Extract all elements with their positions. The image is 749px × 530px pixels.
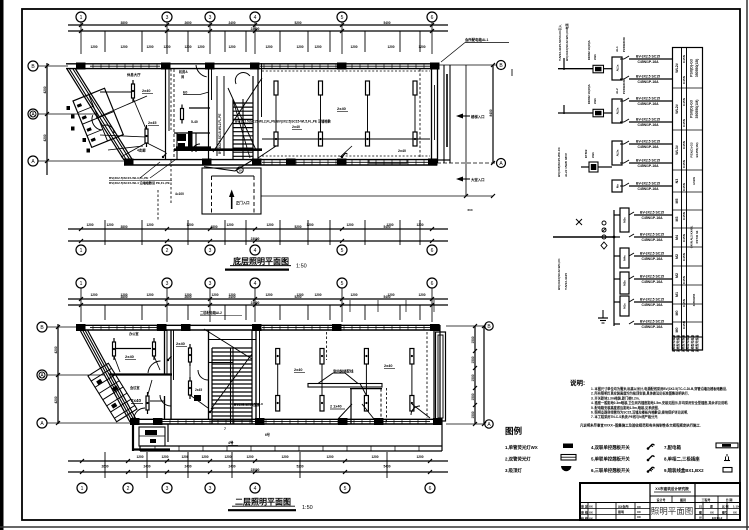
plan2 rotated stair block <box>88 363 137 422</box>
svg-text:2x40: 2x40 <box>292 125 300 129</box>
svg-text:2x40: 2x40 <box>176 341 186 346</box>
svg-text:XX: XX <box>589 516 593 520</box>
plan2 right room fixture stem 1 <box>277 364 279 396</box>
svg-text:日 期: 日 期 <box>726 497 733 502</box>
plan1 entrance box <box>202 168 261 214</box>
legend symbol 5 <box>647 459 650 462</box>
plan2 stair diagonal <box>204 329 252 359</box>
plan2 entry fixture <box>145 430 157 435</box>
plan2 axis line 1 <box>80 288 82 322</box>
riser breaker M0 <box>629 321 634 324</box>
plan2 bottom wall <box>130 418 442 420</box>
riser panel 4 <box>614 214 620 216</box>
plan2 entry walls <box>132 424 134 451</box>
svg-text:4: 4 <box>254 486 257 492</box>
plan1 fixture F1 <box>132 80 134 102</box>
riser wire m3 <box>581 166 589 168</box>
riser panel 1 <box>612 57 622 80</box>
svg-text:30550255: 30550255 <box>692 293 696 306</box>
riser table bottom box <box>673 337 703 350</box>
plan2 right wires <box>318 373 333 384</box>
riser breaker WL5 <box>620 143 624 145</box>
plan2 axis circle 4 top <box>250 278 260 288</box>
plan2 door arc 3 <box>198 370 208 380</box>
plan2 wall x208 <box>208 330 210 419</box>
svg-text:DD862 10(40)A: DD862 10(40)A <box>587 84 591 104</box>
plan2 hwall left <box>109 373 172 375</box>
svg-text:C45N/1P-16A: C45N/1P-16A <box>641 303 663 307</box>
plan2 fixture H1 <box>113 338 115 360</box>
plan1 top wall window ticks <box>92 64 94 69</box>
svg-text:C45N/1P-16A: C45N/1P-16A <box>637 123 659 127</box>
plan1 top wall column <box>430 63 440 70</box>
plan1 top dim line 2 <box>68 30 448 32</box>
plan2 top dim line 1 <box>68 298 448 300</box>
svg-text:M5: M5 <box>675 199 679 204</box>
svg-text:1: 1 <box>80 248 83 254</box>
svg-text:底层照明平面图: 底层照明平面图 <box>232 256 289 266</box>
legend symbol 2 <box>561 455 576 461</box>
svg-text:图别: 图别 <box>680 497 686 502</box>
svg-text:AL2J 15kW 380V: AL2J 15kW 380V <box>564 153 568 177</box>
svg-text:EQ10-2: EQ10-2 <box>712 516 723 520</box>
svg-text:BV-3X2.5 SC15: BV-3X2.5 SC15 <box>636 55 660 59</box>
plan1 entrance inner sides <box>211 176 213 214</box>
plan1 wall x170 <box>165 69 167 160</box>
svg-text:C45N: C45N <box>682 118 686 127</box>
plan1 wall x208 <box>208 69 210 160</box>
plan1 axis circle A left <box>28 156 38 166</box>
svg-text:1200: 1200 <box>106 223 113 227</box>
titleblock right rows <box>695 508 740 510</box>
svg-text:审 核: 审 核 <box>581 509 588 514</box>
legend symbol 9 <box>723 468 732 473</box>
svg-text:1500: 1500 <box>471 336 475 343</box>
plan1 bottom wall <box>124 159 437 161</box>
svg-text:5: 5 <box>341 15 344 21</box>
riser panel 2 <box>612 99 622 123</box>
plan1 bottom extension ticks <box>104 220 106 245</box>
plan1 note leaders <box>140 162 160 178</box>
svg-text:7: 7 <box>224 427 226 431</box>
svg-text:5,单联单控翘板开关: 5,单联单控翘板开关 <box>591 456 630 463</box>
svg-text:照明: 照明 <box>618 509 624 514</box>
svg-text:设计号: 设计号 <box>656 497 665 502</box>
legend symbol 6 <box>647 470 650 473</box>
plan2 right room fixture stem 4 <box>411 364 413 396</box>
svg-text:审 定: 审 定 <box>581 503 588 508</box>
svg-text:3: 3 <box>166 281 169 287</box>
svg-text:XX市建筑设计研究院: XX市建筑设计研究院 <box>655 486 689 491</box>
plan1 top wall column <box>250 63 260 70</box>
svg-text:6号: 6号 <box>265 432 271 437</box>
svg-text:C45N: C45N <box>682 275 686 284</box>
plan1 axis circle 5 bottom <box>337 245 347 255</box>
svg-text:工程号: 工程号 <box>701 497 710 502</box>
riser branch 186 <box>620 185 624 187</box>
titleblock h mid <box>580 502 650 504</box>
svg-text:4200: 4200 <box>43 86 47 93</box>
svg-text:XX: XX <box>589 510 593 514</box>
riser tap tick 2 <box>563 105 565 114</box>
plan1 axis circle A right <box>497 159 506 168</box>
plan2 AL2 panel box <box>194 395 201 401</box>
svg-text:PSX(D)-G3: PSX(D)-G3 <box>690 100 694 118</box>
legend symbol 1 <box>563 444 573 449</box>
plan2 right room fixture top 1 <box>276 349 280 365</box>
plan2 right dots <box>277 355 279 357</box>
svg-text:BV(3X2.5)SC15-WL8: BV(3X2.5)SC15-WL8 <box>234 402 263 406</box>
plan2 bottom wall column <box>153 418 163 425</box>
plan2 axis circle 1 top <box>76 278 86 288</box>
svg-text:2x45: 2x45 <box>195 388 202 392</box>
svg-text:2x40: 2x40 <box>294 368 302 372</box>
svg-text:BV-3X2.5 SC15: BV-3X2.5 SC15 <box>640 298 664 302</box>
plan2 stair treads <box>212 347 252 349</box>
svg-text:6: 6 <box>429 486 432 492</box>
plan2 right dashed <box>426 332 428 418</box>
plan2 wires left <box>154 356 160 370</box>
svg-text:3: 3 <box>209 248 212 254</box>
plan2 right room fixture stem 3 <box>365 364 367 396</box>
plan1 left room dots <box>132 90 134 92</box>
plan1 slant tick blobs <box>67 106 71 110</box>
svg-text:AL2x: AL2x <box>616 107 620 114</box>
svg-text:23000: 23000 <box>251 27 260 31</box>
plan2 fixture V1 <box>147 392 149 414</box>
svg-text:XX: XX <box>637 515 641 519</box>
riser ground symbol <box>602 310 604 318</box>
plan1 right axis line B <box>439 64 496 66</box>
svg-text:3: 3 <box>209 281 212 287</box>
svg-text:正门入口: 正门入口 <box>236 200 250 205</box>
svg-text:1200: 1200 <box>224 455 231 459</box>
plan2 right inner vdim <box>474 326 476 424</box>
svg-text:PXT30 3X: PXT30 3X <box>695 230 699 243</box>
plan1 top wall column <box>337 63 347 70</box>
riser feeder switch <box>602 221 606 225</box>
plan2 balcony ticks <box>154 446 156 451</box>
svg-text:1200: 1200 <box>418 293 425 297</box>
plan2 right axis line A <box>446 423 485 425</box>
svg-text:6. 照明支路穿线管均为SC15,沿墙及楼板内暗敷设,接地保: 6. 照明支路穿线管均为SC15,沿墙及楼板内暗敷设,接地保护详见说明, <box>591 410 688 415</box>
plan1 big room fixture stem 1 <box>275 95 277 132</box>
plan2 axis line 3 <box>209 288 211 322</box>
titleblock vline major 2 <box>694 483 696 520</box>
svg-text:B1455(1M): B1455(1M) <box>695 142 699 157</box>
svg-text:C45N AL2 KX45L: C45N AL2 KX45L <box>690 225 694 248</box>
plan2 bottom wall column <box>255 418 265 425</box>
svg-text:BV(3X2.5)SC15-WL3,FL,PE: BV(3X2.5)SC15-WL3,FL,PE <box>109 176 148 180</box>
svg-text:XX: XX <box>733 511 737 515</box>
riser wire m2-p2 <box>604 112 613 114</box>
plan1 axis line 3 <box>209 22 211 54</box>
plan1 axis line 1 <box>80 22 82 54</box>
riser breaker WL4 <box>620 121 624 123</box>
svg-text:M1x: M1x <box>623 303 627 309</box>
riser tap 2 <box>558 112 593 114</box>
riser breaker M2 <box>629 276 634 279</box>
svg-text:XX: XX <box>589 504 593 508</box>
plan1 left switch <box>162 156 164 158</box>
plan2 wall x164 <box>164 330 166 375</box>
svg-text:3800: 3800 <box>120 21 127 25</box>
svg-text:C45N: C45N <box>682 159 686 168</box>
plan2 top wall column <box>76 324 86 331</box>
svg-text:4走廊: 4走廊 <box>137 148 146 153</box>
svg-text:1200: 1200 <box>161 455 168 459</box>
svg-text:3: 3 <box>209 486 212 492</box>
plan1 left axis line 1/A <box>38 113 96 115</box>
plan1 bottom wall column <box>124 159 134 166</box>
plan2 right room fixture bottom 4 <box>410 396 414 412</box>
svg-text:1:50: 1:50 <box>302 505 313 511</box>
plan2 left slant wall <box>80 330 130 422</box>
svg-text:2x40: 2x40 <box>142 89 150 93</box>
plan1 big room fixture bottom 4 <box>413 132 417 146</box>
svg-text:BV-3X2.5 SC15: BV-3X2.5 SC15 <box>640 211 664 215</box>
plan2 fixture V3 <box>189 377 191 399</box>
plan2 door arc 1 <box>148 361 161 373</box>
svg-text:3. 开关距地1.3m暗装,距门框0.2m,: 3. 开关距地1.3m暗装,距门框0.2m, <box>591 395 640 400</box>
plan1 wire diag <box>133 98 146 129</box>
plan1 bottom wall column <box>202 159 212 166</box>
plan2 switches <box>167 359 169 361</box>
riser breaker M1 <box>629 299 634 302</box>
plan1 top wall column <box>205 63 215 70</box>
plan1 wire F1 <box>100 91 131 93</box>
legend symbol 4 <box>647 447 650 450</box>
svg-text:6: 6 <box>431 281 434 287</box>
svg-text:C45N: C45N <box>682 211 686 220</box>
plan2 axis line 3 <box>166 288 168 322</box>
plan1 stair left wall <box>216 76 218 156</box>
svg-text:BV-3X2.5 SC15: BV-3X2.5 SC15 <box>636 159 660 163</box>
plan1 big room fixture stem 3 <box>367 95 369 132</box>
svg-text:AL1x: AL1x <box>616 64 620 71</box>
svg-text:2,双管荧光灯: 2,双管荧光灯 <box>505 456 531 463</box>
plan1 long diagonal <box>213 78 262 152</box>
svg-text:C45N/1P-16A: C45N/1P-16A <box>637 60 659 64</box>
svg-text:1,单管荧光灯WX: 1,单管荧光灯WX <box>505 444 538 451</box>
plan1 bottom dim line 1 <box>68 228 448 230</box>
plan1 big room dash top <box>262 70 430 72</box>
svg-text:1: 1 <box>81 486 84 492</box>
svg-text:3,吸顶灯: 3,吸顶灯 <box>505 467 522 474</box>
plan2 left axis line 1/A <box>47 374 105 376</box>
plan1 axis circle 2 bottom <box>162 245 172 255</box>
svg-text:2: 2 <box>127 486 130 492</box>
plan2 right room fixture top 3 <box>364 349 368 365</box>
plan2 axis circle 3 top <box>205 278 215 288</box>
svg-text:1200: 1200 <box>416 455 423 459</box>
plan2 balcony strip <box>140 445 442 447</box>
plan2 wire V1 <box>150 400 164 402</box>
plan1 stair treads <box>233 102 253 104</box>
svg-text:1200: 1200 <box>228 45 235 49</box>
titleblock left cols <box>587 503 589 521</box>
svg-text:4200: 4200 <box>54 396 58 403</box>
plan1 axis circle 3 top <box>162 12 172 22</box>
plan1 corridor wall <box>174 148 262 151</box>
plan2 axis line 6 <box>431 288 433 322</box>
plan2 axis circle 6 top <box>427 278 437 288</box>
svg-text:M2x: M2x <box>623 280 627 286</box>
plan2 axis circle 4 bottom <box>250 483 260 493</box>
svg-text:AL1: AL1 <box>615 46 619 52</box>
riser breaker M3 <box>629 212 634 215</box>
svg-text:7,配电箱: 7,配电箱 <box>664 444 681 451</box>
svg-text:1200: 1200 <box>281 455 288 459</box>
riser table row lines <box>673 87 703 89</box>
plan1 axis circle B left <box>28 61 38 71</box>
svg-text:350550(1M): 350550(1M) <box>695 100 699 119</box>
svg-text:图号: 图号 <box>722 511 728 515</box>
plan2 axis circle B left <box>37 322 47 332</box>
legend symbol 8 <box>724 460 730 462</box>
svg-text:1500: 1500 <box>471 374 475 381</box>
svg-text:2 1x40: 2 1x40 <box>330 405 342 409</box>
plan2 right vert dim <box>483 326 485 424</box>
plan1 top dim line 1 <box>68 24 448 26</box>
svg-text:M3x: M3x <box>623 217 627 223</box>
plan1 stair top arc <box>235 73 250 84</box>
plan1 left vert dim line <box>46 63 48 175</box>
svg-text:AL3x: AL3x <box>616 149 620 156</box>
svg-text:M2: M2 <box>675 273 679 278</box>
plan1 big room fixture bottom 1 <box>274 132 278 146</box>
plan1 top wall column <box>161 63 171 70</box>
riser wire m1-p1 <box>604 68 613 70</box>
plan1 entrance dashes <box>170 160 172 205</box>
svg-text:1200: 1200 <box>184 293 191 297</box>
plan1 big room dash bottom <box>262 155 430 157</box>
svg-text:C45N/1P-16A: C45N/1P-16A <box>641 325 663 329</box>
plan1 WC leader wires <box>96 96 147 118</box>
svg-text:4,双联单控翘板开关: 4,双联单控翘板开关 <box>591 444 630 451</box>
svg-text:10: 10 <box>238 169 242 173</box>
plan2 beam bar <box>308 384 382 388</box>
svg-text:WL2#: WL2# <box>675 104 679 114</box>
plan2 axis circle 3 bottom <box>205 483 215 493</box>
svg-text:2x40: 2x40 <box>131 398 142 403</box>
plan2 top wall <box>76 324 440 326</box>
svg-text:600: 600 <box>467 208 472 212</box>
svg-text:2x40: 2x40 <box>125 354 135 359</box>
riser panel 6 <box>614 278 620 280</box>
plan1 terrace line <box>261 195 466 197</box>
titleblock cell 设计 <box>671 496 673 503</box>
riser junction dots <box>613 236 616 239</box>
svg-text:图: 图 <box>699 511 702 515</box>
svg-text:5: 5 <box>344 486 347 492</box>
plan2 wall x256 stair right <box>255 325 257 419</box>
plan2 bottom wall window ticks <box>161 419 163 424</box>
plan2 axis circle A right <box>485 420 493 428</box>
plan1 small wc arc <box>192 144 200 152</box>
plan2 top wall column <box>181 324 191 331</box>
svg-text:二层照明平面图: 二层照明平面图 <box>235 498 291 507</box>
svg-text:C45N/1P-16A: C45N/1P-16A <box>637 102 659 106</box>
svg-text:350550(1B): 350550(1B) <box>695 59 699 77</box>
svg-text:C45N/1P-16A: C45N/1P-16A <box>637 145 659 149</box>
svg-text:M0: M0 <box>675 328 679 333</box>
svg-text:1200: 1200 <box>346 223 353 227</box>
plan2 top dim line 2 <box>68 304 448 306</box>
plan1 axis circle 5 top <box>337 12 347 22</box>
plan1 door arc mid <box>196 65 207 77</box>
svg-text:1: 1 <box>80 281 83 287</box>
svg-text:二层配电箱AL2: 二层配电箱AL2 <box>200 310 222 315</box>
svg-text:号: 号 <box>699 516 702 520</box>
plan1 circled 10 <box>237 167 243 173</box>
riser breaker WL6 <box>620 162 624 164</box>
svg-text:1200: 1200 <box>266 223 273 227</box>
svg-text:1200: 1200 <box>246 455 253 459</box>
svg-text:6: 6 <box>431 248 434 254</box>
svg-text:1:50: 1:50 <box>296 264 307 270</box>
plan2 top wall column <box>332 324 342 331</box>
titleblock right cols <box>717 496 719 520</box>
svg-text:机房A: 机房A <box>178 69 188 74</box>
plan1 small wc fixtures <box>177 134 186 141</box>
plan2 mid hwall <box>209 362 233 364</box>
svg-text:4200: 4200 <box>43 134 47 141</box>
svg-text:M4: M4 <box>675 235 679 240</box>
titleblock left rows <box>580 508 650 510</box>
plan2 left dots <box>113 348 115 350</box>
plan1 hall entry arrow <box>458 178 470 180</box>
plan1 big room dots <box>275 138 277 140</box>
svg-text:照明平面图: 照明平面图 <box>651 506 694 516</box>
plan2 right room fixture bottom 2 <box>320 396 324 412</box>
plan2 axis circle 1/A left <box>37 370 47 380</box>
plan2 axis circle 3 top <box>162 278 172 288</box>
plan2 bottom wall column <box>374 418 384 425</box>
svg-text:2: 2 <box>166 248 169 254</box>
plan2 axis circle 2 bottom <box>123 483 133 493</box>
svg-text:1200: 1200 <box>371 455 378 459</box>
riser tap tick 1 <box>563 58 565 70</box>
svg-text:凡说明未尽事宜XXXX--图集施工及验收规范和有关强制性条文: 凡说明未尽事宜XXXX--图集施工及验收规范和有关强制性条文规程规定执行施工. <box>579 423 701 428</box>
plan1 axis circle 1/A left <box>28 109 38 119</box>
plan1 big room fixture stem 4 <box>414 95 416 132</box>
svg-text:23000: 23000 <box>251 301 260 305</box>
plan1 entrance inner top <box>212 175 255 177</box>
plan1 fixture F3 <box>181 105 183 124</box>
svg-text:N3: N3 <box>675 179 679 184</box>
titleblock company underline <box>654 491 691 493</box>
svg-text:5200: 5200 <box>294 225 301 229</box>
svg-text:5: 5 <box>341 281 344 287</box>
svg-text:2. 所有照明灯具安装高度均为吸顶安装,具体做法见标准图集说: 2. 所有照明灯具安装高度均为吸顶安装,具体做法见标准图集说明执行, <box>591 391 689 396</box>
svg-text:WL2#: WL2# <box>675 63 679 73</box>
plan2 axis line 5 <box>341 288 343 322</box>
page right edge line <box>746 0 748 530</box>
plan1 big room fixture top 3 <box>366 81 370 95</box>
plan1 axis circle 3 bottom <box>205 245 215 255</box>
plan2 top wall window ticks <box>92 325 94 330</box>
plan2 bottom wall column <box>433 418 443 425</box>
svg-text:图例: 图例 <box>505 426 523 436</box>
riser panel 5 <box>614 255 620 257</box>
plan1 small wc walls <box>176 133 178 160</box>
plan1 big room fixture bottom 3 <box>366 132 370 146</box>
plan1 top wall <box>66 63 439 65</box>
plan1 partition y108 <box>189 107 210 109</box>
plan2 top wall column <box>157 324 167 331</box>
svg-text:3800: 3800 <box>120 225 127 229</box>
